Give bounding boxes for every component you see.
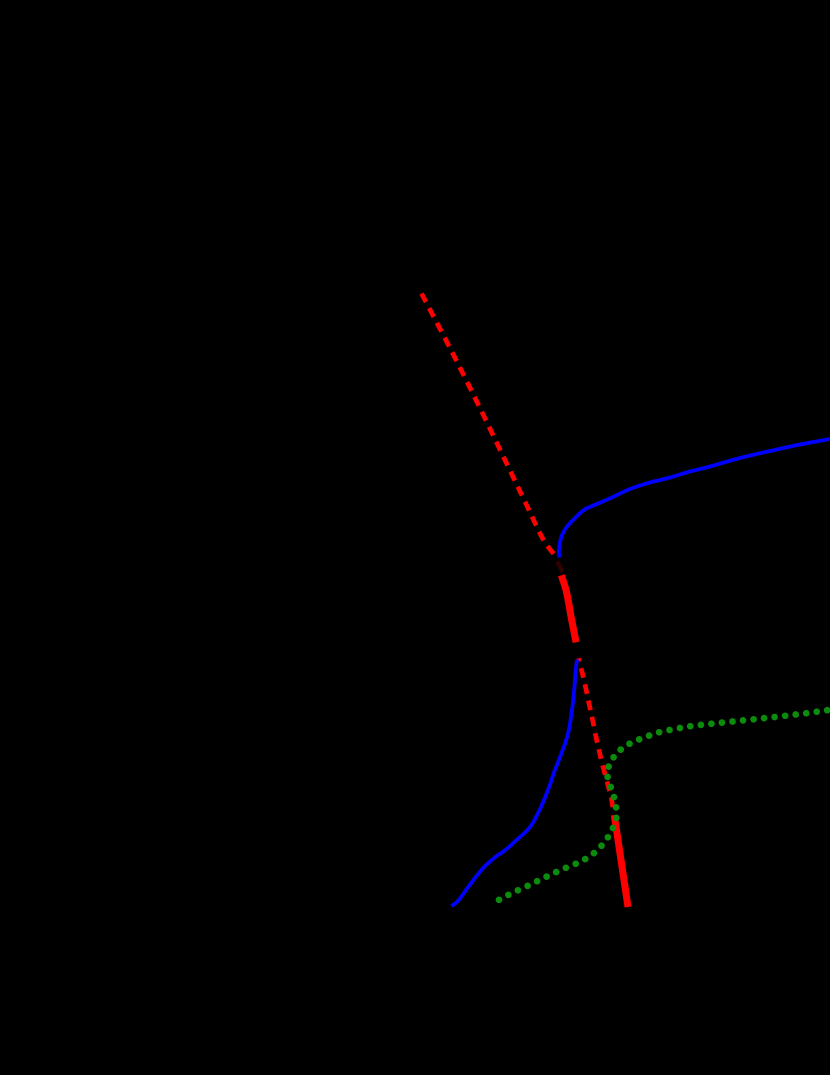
red dashed branch (middle unstable segment) — [579, 658, 614, 812]
dark red junction blob — [557, 562, 562, 572]
red dashed branch (upper unstable segment) — [422, 294, 556, 556]
blue lower curve — [451, 660, 577, 907]
green dotted curve — [496, 707, 830, 903]
blue upper curve — [559, 439, 830, 558]
red thick solid segment (upper stable) — [561, 575, 576, 642]
red thick solid segment (lower stable) — [614, 815, 628, 907]
